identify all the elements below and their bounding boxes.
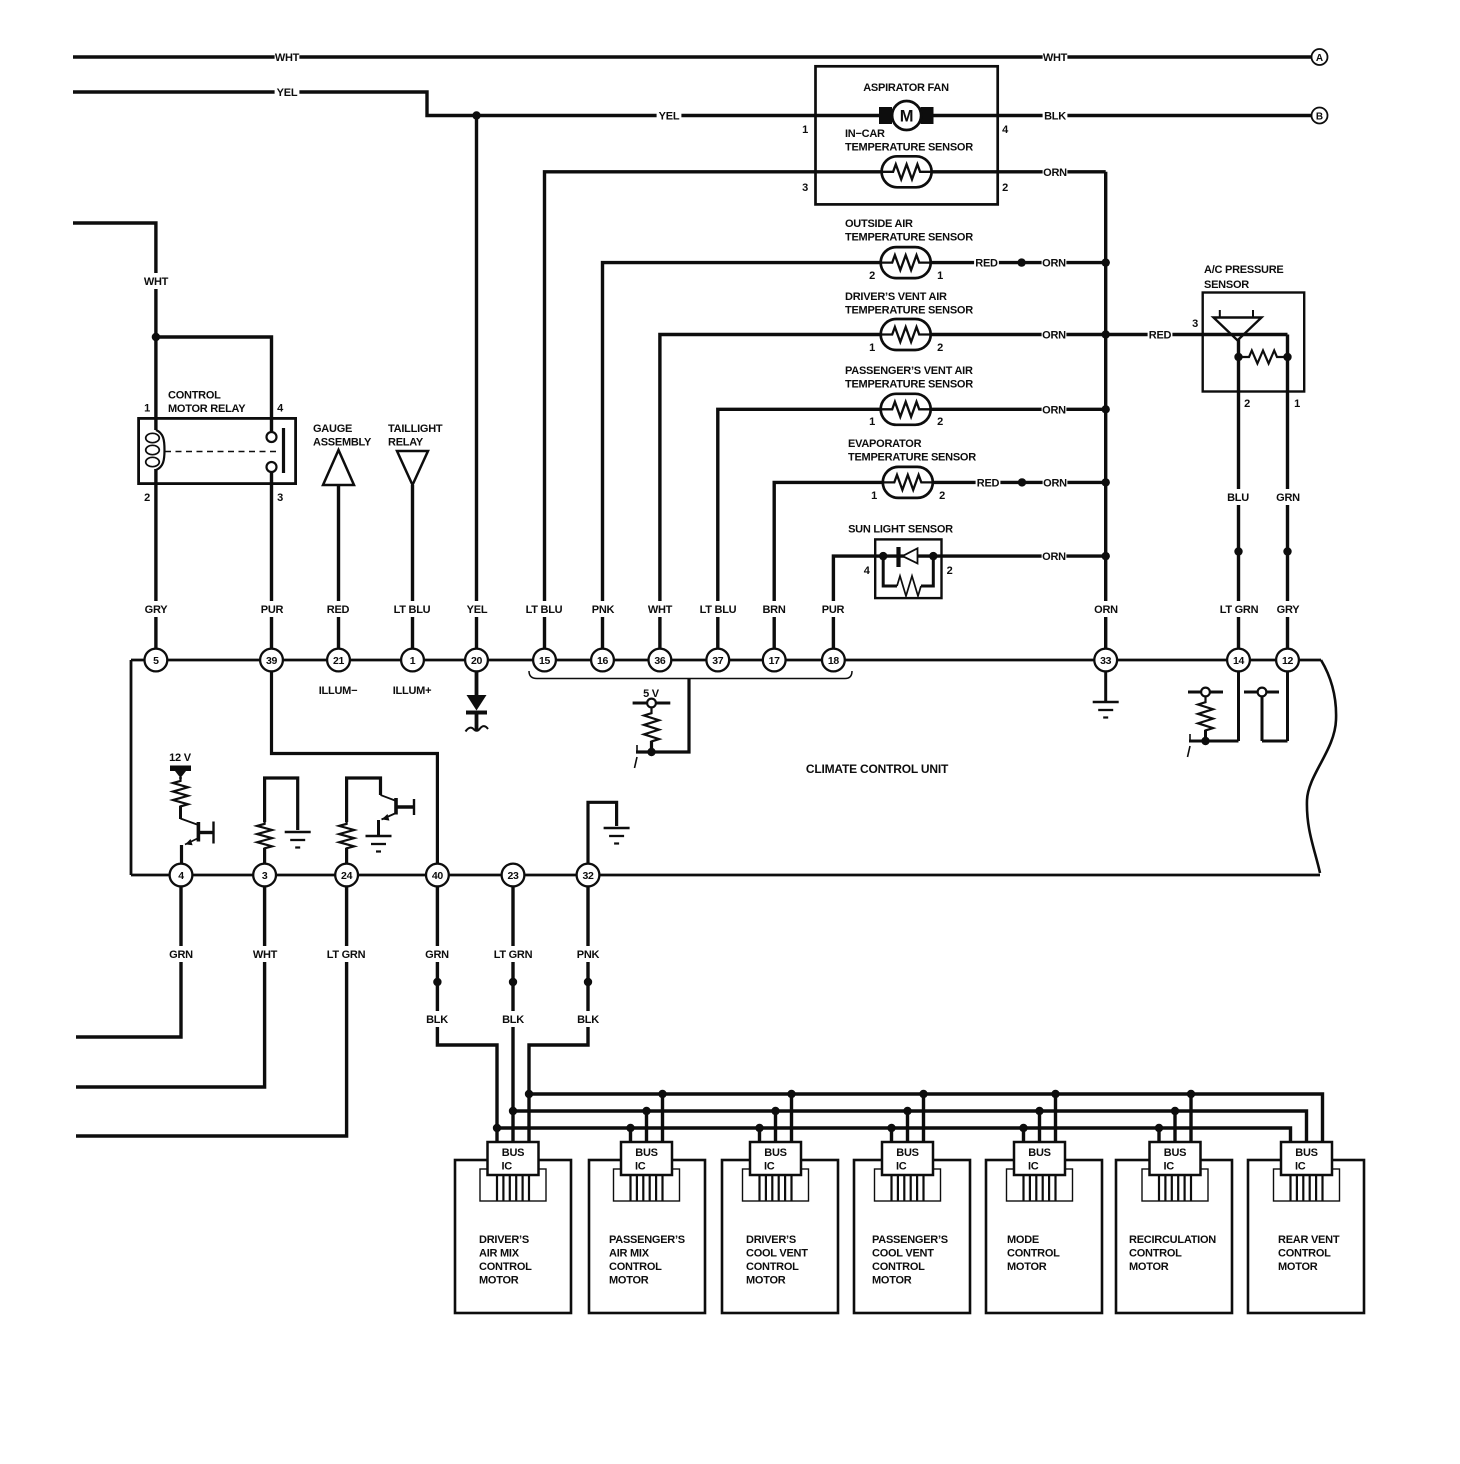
a/c sensor pin number 1 (1294, 398, 1300, 410)
svg-text:1: 1 (869, 342, 875, 354)
svg-text:A: A (1316, 53, 1323, 64)
CCU pin 1 (401, 649, 424, 672)
svg-text:IN−CAR: IN−CAR (845, 128, 885, 140)
svg-text:DRIVER’S: DRIVER’S (479, 1234, 529, 1246)
svg-text:LT GRN: LT GRN (327, 949, 366, 961)
junction middle bus (motor 4) (903, 1107, 911, 1115)
svg-text:IC: IC (502, 1161, 513, 1173)
junction pin32 wire / top bus (525, 1090, 533, 1098)
label GRN (pin 4) (169, 946, 194, 962)
junction ORN/drivers vent (1102, 330, 1110, 338)
label GRY (pin 12) (1276, 601, 1301, 617)
svg-text:15: 15 (539, 655, 551, 667)
svg-text:BLU: BLU (1227, 492, 1249, 504)
pin 14 internal resistor circuit (1188, 672, 1239, 758)
wire pin 32 to ground (internal) (588, 802, 617, 864)
5V supply node (633, 688, 671, 711)
svg-text:ILLUM+: ILLUM+ (393, 685, 432, 697)
svg-text:CONTROL: CONTROL (479, 1261, 532, 1273)
label ORN (in-car) (1043, 164, 1068, 180)
ground (pin 32) (604, 828, 630, 844)
recirculation control motor box (1116, 1160, 1232, 1313)
bus stub left (motor 2) (629, 1128, 632, 1142)
bus stub middle (motor 2) (645, 1111, 648, 1142)
svg-text:RED: RED (977, 477, 1000, 489)
label RED (outside air) (974, 255, 999, 271)
svg-text:LT GRN: LT GRN (494, 949, 533, 961)
svg-text:1: 1 (144, 403, 150, 415)
splice GRN/GRY (1283, 547, 1291, 555)
wire GRN a/c sensor pin 1 to pin 12 (1286, 335, 1289, 650)
splice LT GRN/BLK (509, 978, 517, 986)
label WHT (left) (275, 49, 300, 65)
junction pin40 wire / bottom bus (493, 1124, 501, 1132)
svg-text:WHT: WHT (1043, 52, 1068, 64)
junction WHT relay branch (152, 333, 160, 341)
label PUR (pin 18) (821, 601, 846, 617)
svg-text:OUTSIDE AIR: OUTSIDE AIR (845, 218, 913, 230)
splice RED/ORN (outside air) (1017, 258, 1025, 266)
label BLK (pin 23) (501, 1011, 526, 1027)
wire PNK/BLK pin 32 to bus (529, 887, 588, 1143)
svg-text:BUS: BUS (1295, 1147, 1317, 1159)
passengers air mix control motor box (589, 1160, 705, 1313)
label YEL (left) (275, 84, 300, 100)
a/c sensor pin number 2 (1244, 398, 1250, 410)
svg-text:14: 14 (1233, 655, 1245, 667)
svg-text:DRIVER’S: DRIVER’S (746, 1234, 796, 1246)
svg-text:40: 40 (432, 870, 444, 882)
wire WHT branch to relay pin 4 (156, 337, 272, 433)
bus stub left (motor 4) (890, 1128, 893, 1142)
wire BLU a/c sensor pin 2 to pin 14 (1237, 339, 1240, 649)
svg-text:CONTROL: CONTROL (168, 390, 221, 402)
svg-text:ORN: ORN (1042, 258, 1066, 270)
svg-text:EVAPORATOR: EVAPORATOR (848, 438, 922, 450)
svg-text:TEMPERATURE SENSOR: TEMPERATURE SENSOR (845, 232, 973, 244)
svg-text:CONTROL: CONTROL (872, 1261, 925, 1273)
svg-text:33: 33 (1100, 655, 1112, 667)
CCU pin 23 (502, 864, 525, 887)
a/c sensor pin number 3 (1192, 318, 1198, 330)
svg-text:LT BLU: LT BLU (526, 604, 563, 616)
svg-text:BLK: BLK (502, 1014, 524, 1026)
label ORN (evaporator) (1043, 474, 1068, 490)
svg-text:CLIMATE CONTROL UNIT: CLIMATE CONTROL UNIT (806, 762, 949, 776)
svg-text:32: 32 (582, 870, 594, 882)
label OUTSIDE AIR TEMPERATURE SENSOR (845, 218, 973, 244)
relay pin number 4 (277, 403, 284, 415)
label ASPIRATOR FAN (863, 82, 949, 94)
resistor R3 (12V) (173, 777, 188, 808)
mode control motor box (986, 1160, 1102, 1313)
svg-text:2: 2 (1244, 398, 1250, 410)
CCU pin 17 (763, 649, 786, 672)
label A/C PRESSURE SENSOR (1204, 264, 1284, 291)
junction bottom bus (motor 3) (755, 1124, 763, 1132)
relay coil (146, 430, 165, 470)
svg-text:COOL VENT: COOL VENT (872, 1248, 934, 1260)
junction top bus (motor 5) (1051, 1090, 1059, 1098)
svg-text:17: 17 (769, 655, 781, 667)
junction bottom bus (motor 5) (1019, 1124, 1027, 1132)
CCU pin 18 (822, 649, 845, 672)
wire LT BLU taillight relay to pin 1 (411, 485, 414, 649)
sun sensor pin 2 node (929, 552, 937, 560)
svg-text:WHT: WHT (275, 52, 300, 64)
bus stub middle (motor 3) (774, 1111, 777, 1142)
svg-text:PASSENGER’S: PASSENGER’S (872, 1234, 948, 1246)
bus stub left (motor 3) (758, 1128, 761, 1142)
wire RED gauge assembly to pin 21 (337, 485, 340, 649)
wire GRY relay pin 2 to pin 5 (154, 469, 157, 649)
resistor R2 (5V pull-up) (644, 711, 659, 744)
svg-text:LT GRN: LT GRN (1220, 604, 1259, 616)
wire ORN vertical to pin 33 (1104, 172, 1107, 649)
junction ORN/evaporator (1102, 478, 1110, 486)
label WHT (pin 3) (253, 946, 278, 962)
svg-text:SENSOR: SENSOR (1204, 279, 1249, 291)
svg-text:BUS: BUS (502, 1147, 524, 1159)
svg-text:BLK: BLK (577, 1014, 599, 1026)
bus IC (motor 2) (614, 1142, 680, 1201)
wire pin 33 to ground (1104, 672, 1107, 703)
svg-text:IC: IC (896, 1161, 907, 1173)
junction middle bus (motor 6) (1171, 1107, 1179, 1115)
svg-text:B: B (1316, 112, 1323, 123)
control motor relay K1 box (139, 418, 296, 483)
junction pin23 wire / middle bus (509, 1107, 517, 1115)
svg-text:1: 1 (1294, 398, 1300, 410)
bus line (top) (529, 1094, 1323, 1142)
ground (pin 33) (1093, 702, 1119, 718)
sun light sensor box (875, 539, 941, 598)
svg-text:AIR MIX: AIR MIX (479, 1248, 520, 1260)
svg-text:IC: IC (1295, 1161, 1306, 1173)
svg-text:WHT: WHT (648, 604, 673, 616)
label LT BLU (pin 1) (390, 601, 435, 617)
wire GRN/BLK pin 40 to bus (437, 887, 497, 1143)
wire WHT feed to connector A (73, 55, 1311, 58)
drivers vent sensor pin 2 (937, 342, 943, 354)
svg-text:CONTROL: CONTROL (609, 1261, 662, 1273)
label RED (326, 601, 351, 617)
fan motor M1 (879, 101, 934, 130)
junction middle bus (motor 5) (1035, 1107, 1043, 1115)
transistor Q1 (181, 806, 214, 864)
splice PNK/BLK (584, 978, 592, 986)
svg-text:12 V: 12 V (169, 752, 192, 764)
CCU pin 20 (465, 649, 488, 672)
label LT GRN (pin 23) (491, 946, 536, 962)
pin 12 internal circuit (1244, 672, 1288, 742)
junction ORN/outside air (1102, 258, 1110, 266)
label GRY (144, 601, 169, 617)
label ORN (pin 33) (1094, 601, 1119, 617)
svg-text:37: 37 (712, 655, 724, 667)
label RED (a/c sensor feed) (1148, 327, 1173, 343)
evaporator sensor pin 1 (871, 490, 877, 502)
taillight relay symbol (397, 451, 428, 485)
svg-text:WHT: WHT (253, 949, 278, 961)
wire GRN pin 4 (76, 887, 181, 1038)
svg-text:MOTOR: MOTOR (479, 1275, 519, 1287)
svg-text:18: 18 (828, 655, 840, 667)
CCU pin 15 (533, 649, 556, 672)
svg-text:24: 24 (341, 870, 353, 882)
svg-text:CONTROL: CONTROL (1007, 1248, 1060, 1260)
svg-text:GRN: GRN (169, 949, 193, 961)
svg-text:A/C PRESSURE: A/C PRESSURE (1204, 264, 1284, 276)
sun sensor pin 4 node (879, 552, 887, 560)
svg-text:MOTOR RELAY: MOTOR RELAY (168, 403, 246, 415)
svg-text:CONTROL: CONTROL (746, 1261, 799, 1273)
svg-text:RECIRCULATION: RECIRCULATION (1129, 1234, 1216, 1246)
svg-text:ORN: ORN (1043, 167, 1067, 179)
svg-text:GRY: GRY (1277, 604, 1301, 616)
junction top bus (motor 3) (787, 1090, 795, 1098)
12V supply node (169, 752, 192, 778)
in-car temperature sensor thermistor (882, 156, 932, 187)
CCU pin 39 (260, 649, 283, 672)
junction top bus (motor 2) (658, 1090, 666, 1098)
CCU pin 3 (253, 864, 276, 887)
bus IC (motor 6) (1142, 1142, 1208, 1201)
bus IC (motor 1) (480, 1142, 546, 1201)
passengers vent air temperature sensor thermistor (881, 394, 931, 425)
svg-text:LT BLU: LT BLU (700, 604, 737, 616)
svg-text:M: M (900, 108, 914, 126)
label WHT (pin 36) (648, 601, 673, 617)
in-car sensor pin 2 (1002, 182, 1008, 194)
CCU pin 37 (706, 649, 729, 672)
label CONTROL MOTOR RELAY (168, 390, 246, 416)
svg-text:2: 2 (869, 270, 875, 282)
label WHT (relay feed) (144, 273, 169, 289)
a/c sensor internal resistor (1239, 351, 1288, 364)
label ORN (drivers vent) (1042, 327, 1067, 343)
climate control unit box outline (131, 660, 1336, 875)
svg-text:WHT: WHT (144, 276, 169, 288)
svg-text:RELAY: RELAY (388, 437, 424, 449)
svg-text:16: 16 (597, 655, 609, 667)
bus line (bottom) (497, 1128, 1291, 1142)
svg-text:1: 1 (871, 490, 877, 502)
label DRIVER'S VENT AIR TEMPERATURE SENSOR (845, 291, 973, 317)
bus IC (motor 5) (1007, 1142, 1073, 1201)
rear vent control motor box (1248, 1160, 1364, 1313)
label YEL (pin 20) (465, 601, 490, 617)
wire LT BLU pin 15 to in-car sensor (545, 172, 1106, 649)
wire PUR pin 18 to sun light sensor (833, 556, 1105, 649)
svg-text:2: 2 (939, 490, 945, 502)
junction 5V net (647, 748, 655, 756)
CCU pin 33 (1094, 649, 1117, 672)
bus stub right (motor 4) (922, 1094, 925, 1142)
svg-text:COOL VENT: COOL VENT (746, 1248, 808, 1260)
svg-text:2: 2 (1002, 182, 1008, 194)
CCU pin 16 (591, 649, 614, 672)
sun sensor pin number 4 (864, 565, 871, 577)
svg-text:BUS: BUS (896, 1147, 918, 1159)
svg-text:5: 5 (153, 655, 159, 667)
junction middle bus (motor 3) (771, 1107, 779, 1115)
svg-text:BUS: BUS (635, 1147, 657, 1159)
connector bracket under sensor pins (529, 671, 852, 679)
outside air sensor pin 2 (869, 270, 875, 282)
svg-text:3: 3 (262, 870, 268, 882)
svg-text:GRN: GRN (1276, 492, 1300, 504)
a/c sensor amplifier U2 (1214, 310, 1262, 340)
svg-text:MOTOR: MOTOR (1129, 1261, 1169, 1273)
svg-text:RED: RED (327, 604, 350, 616)
svg-text:CONTROL: CONTROL (1129, 1248, 1182, 1260)
splice RED/ORN (evaporator) (1018, 478, 1026, 486)
junction pin 14 net (1201, 737, 1209, 745)
wire inside a/c sensor (1203, 333, 1288, 336)
svg-text:BUS: BUS (1164, 1147, 1186, 1159)
wire YEL drop to pin 20 (475, 116, 478, 650)
label GAUGE ASSEMBLY (313, 423, 372, 449)
svg-text:PUR: PUR (822, 604, 845, 616)
sun light sensor resistor (883, 556, 933, 596)
outside air sensor pin 1 (937, 270, 943, 282)
label LT BLU (pin 37) (696, 601, 741, 617)
label ORN (outside air) (1042, 255, 1067, 271)
resistor R4 circuit (pin 3) (257, 778, 298, 864)
CCU pin 24 (335, 864, 358, 887)
svg-text:YEL: YEL (659, 111, 680, 123)
svg-text:4: 4 (178, 870, 184, 882)
svg-text:21: 21 (333, 655, 345, 667)
svg-text:BUS: BUS (1028, 1147, 1050, 1159)
relay contact (switch) (165, 428, 284, 473)
junction bottom bus (motor 6) (1155, 1124, 1163, 1132)
in-car sensor pin 3 (802, 182, 808, 194)
svg-text:IC: IC (1164, 1161, 1175, 1173)
wire LT GRN/BLK pin 23 to bus (511, 887, 514, 1143)
CCU pin 32 (577, 864, 600, 887)
svg-text:DRIVER’S VENT AIR: DRIVER’S VENT AIR (845, 291, 947, 303)
junction ORN/sun light (1102, 552, 1110, 560)
bus line (middle) (513, 1111, 1307, 1142)
svg-text:LT BLU: LT BLU (394, 604, 431, 616)
svg-text:ORN: ORN (1094, 604, 1118, 616)
label BLK (pin 40) (425, 1011, 450, 1027)
drivers cool vent control motor box (722, 1160, 838, 1313)
label SUN LIGHT SENSOR (848, 524, 953, 536)
diode D1 at pin 20 (466, 672, 489, 732)
connector B (1312, 108, 1328, 124)
svg-text:MOTOR: MOTOR (609, 1275, 649, 1287)
sun sensor pin number 2 (947, 565, 953, 577)
wire YEL feed (73, 92, 816, 116)
svg-text:2: 2 (947, 565, 953, 577)
label ILLUM- (319, 685, 358, 697)
relay pin number 2 (144, 492, 150, 504)
label PUR (260, 601, 285, 617)
svg-text:MODE: MODE (1007, 1234, 1039, 1246)
connector A (1312, 49, 1328, 65)
svg-text:MOTOR: MOTOR (1007, 1261, 1047, 1273)
label YEL (mid) (657, 108, 682, 124)
wire WHT pin 36 to drivers vent sensor / RED to A/C sensor (660, 335, 1203, 650)
svg-text:MOTOR: MOTOR (872, 1275, 912, 1287)
CCU pin 40 (426, 864, 449, 887)
label EVAPORATOR TEMPERATURE SENSOR (848, 438, 976, 464)
junction resistor/BLU (1234, 353, 1242, 361)
wire pin 39 to pin 40 (internal) (272, 672, 438, 865)
svg-text:TEMPERATURE SENSOR: TEMPERATURE SENSOR (845, 379, 973, 391)
label BLK (pin 32) (576, 1011, 601, 1027)
wire LT BLU pin 37 to passengers vent sensor (718, 409, 1106, 649)
bus IC (motor 7) (1274, 1142, 1340, 1201)
transistor Q2 (379, 795, 415, 836)
svg-text:PUR: PUR (261, 604, 284, 616)
outside air temperature sensor thermistor (881, 247, 931, 278)
svg-text:SUN LIGHT SENSOR: SUN LIGHT SENSOR (848, 524, 953, 536)
label ORN (sun light) (1042, 548, 1067, 564)
svg-text:ASPIRATOR FAN: ASPIRATOR FAN (863, 82, 949, 94)
junction bottom bus (motor 2) (626, 1124, 634, 1132)
svg-text:BLK: BLK (1044, 111, 1066, 123)
wire WHT to control motor relay (73, 223, 156, 430)
relay pin number 1 (144, 403, 150, 415)
junction YEL / pin 20 branch (472, 111, 480, 119)
wire BRN pin 17 to evaporator sensor (774, 482, 1105, 649)
CCU pin 5 (145, 649, 168, 672)
label LT GRN (pin 14) (1217, 601, 1262, 617)
label GRN (1276, 489, 1301, 505)
a/c pressure sensor box (1203, 293, 1305, 392)
svg-text:PNK: PNK (592, 604, 615, 616)
junction middle bus (motor 2) (642, 1107, 650, 1115)
gauge assembly symbol (323, 450, 354, 485)
label PNK (pin 32) (576, 946, 601, 962)
bus IC (motor 4) (875, 1142, 941, 1201)
bus IC (motor 3) (743, 1142, 809, 1201)
wire BLK aspirator fan to connector B (998, 114, 1311, 117)
junction resistor/GRN (1283, 353, 1291, 361)
svg-text:TAILLIGHT: TAILLIGHT (388, 423, 443, 435)
splice BLU/LT GRN (1234, 547, 1242, 555)
drivers vent sensor pin 1 (869, 342, 875, 354)
wire PUR relay pin 3 to pin 39 (270, 471, 273, 649)
resistor R5 circuit (pin 24) (339, 778, 380, 864)
svg-text:BLK: BLK (426, 1014, 448, 1026)
label WHT (right) (1043, 49, 1068, 65)
svg-text:1: 1 (802, 124, 808, 136)
svg-text:PNK: PNK (577, 949, 600, 961)
junction bottom bus (motor 4) (887, 1124, 895, 1132)
relay pin number 3 (277, 492, 283, 504)
passengers cool vent control motor box (854, 1160, 970, 1313)
junction top bus (motor 4) (919, 1090, 927, 1098)
aspirator fan unit box (816, 66, 998, 204)
svg-text:MOTOR: MOTOR (1278, 1261, 1318, 1273)
svg-text:REAR VENT: REAR VENT (1278, 1234, 1340, 1246)
label GRN (pin 40) (425, 946, 450, 962)
svg-text:23: 23 (507, 870, 519, 882)
svg-text:3: 3 (277, 492, 283, 504)
svg-text:BRN: BRN (762, 604, 785, 616)
svg-text:IC: IC (635, 1161, 646, 1173)
svg-text:GRY: GRY (145, 604, 169, 616)
splice GRN/BLK (433, 978, 441, 986)
passengers vent sensor pin 2 (937, 416, 943, 428)
bus stub middle (motor 5) (1038, 1111, 1041, 1142)
svg-text:RED: RED (1149, 330, 1172, 342)
